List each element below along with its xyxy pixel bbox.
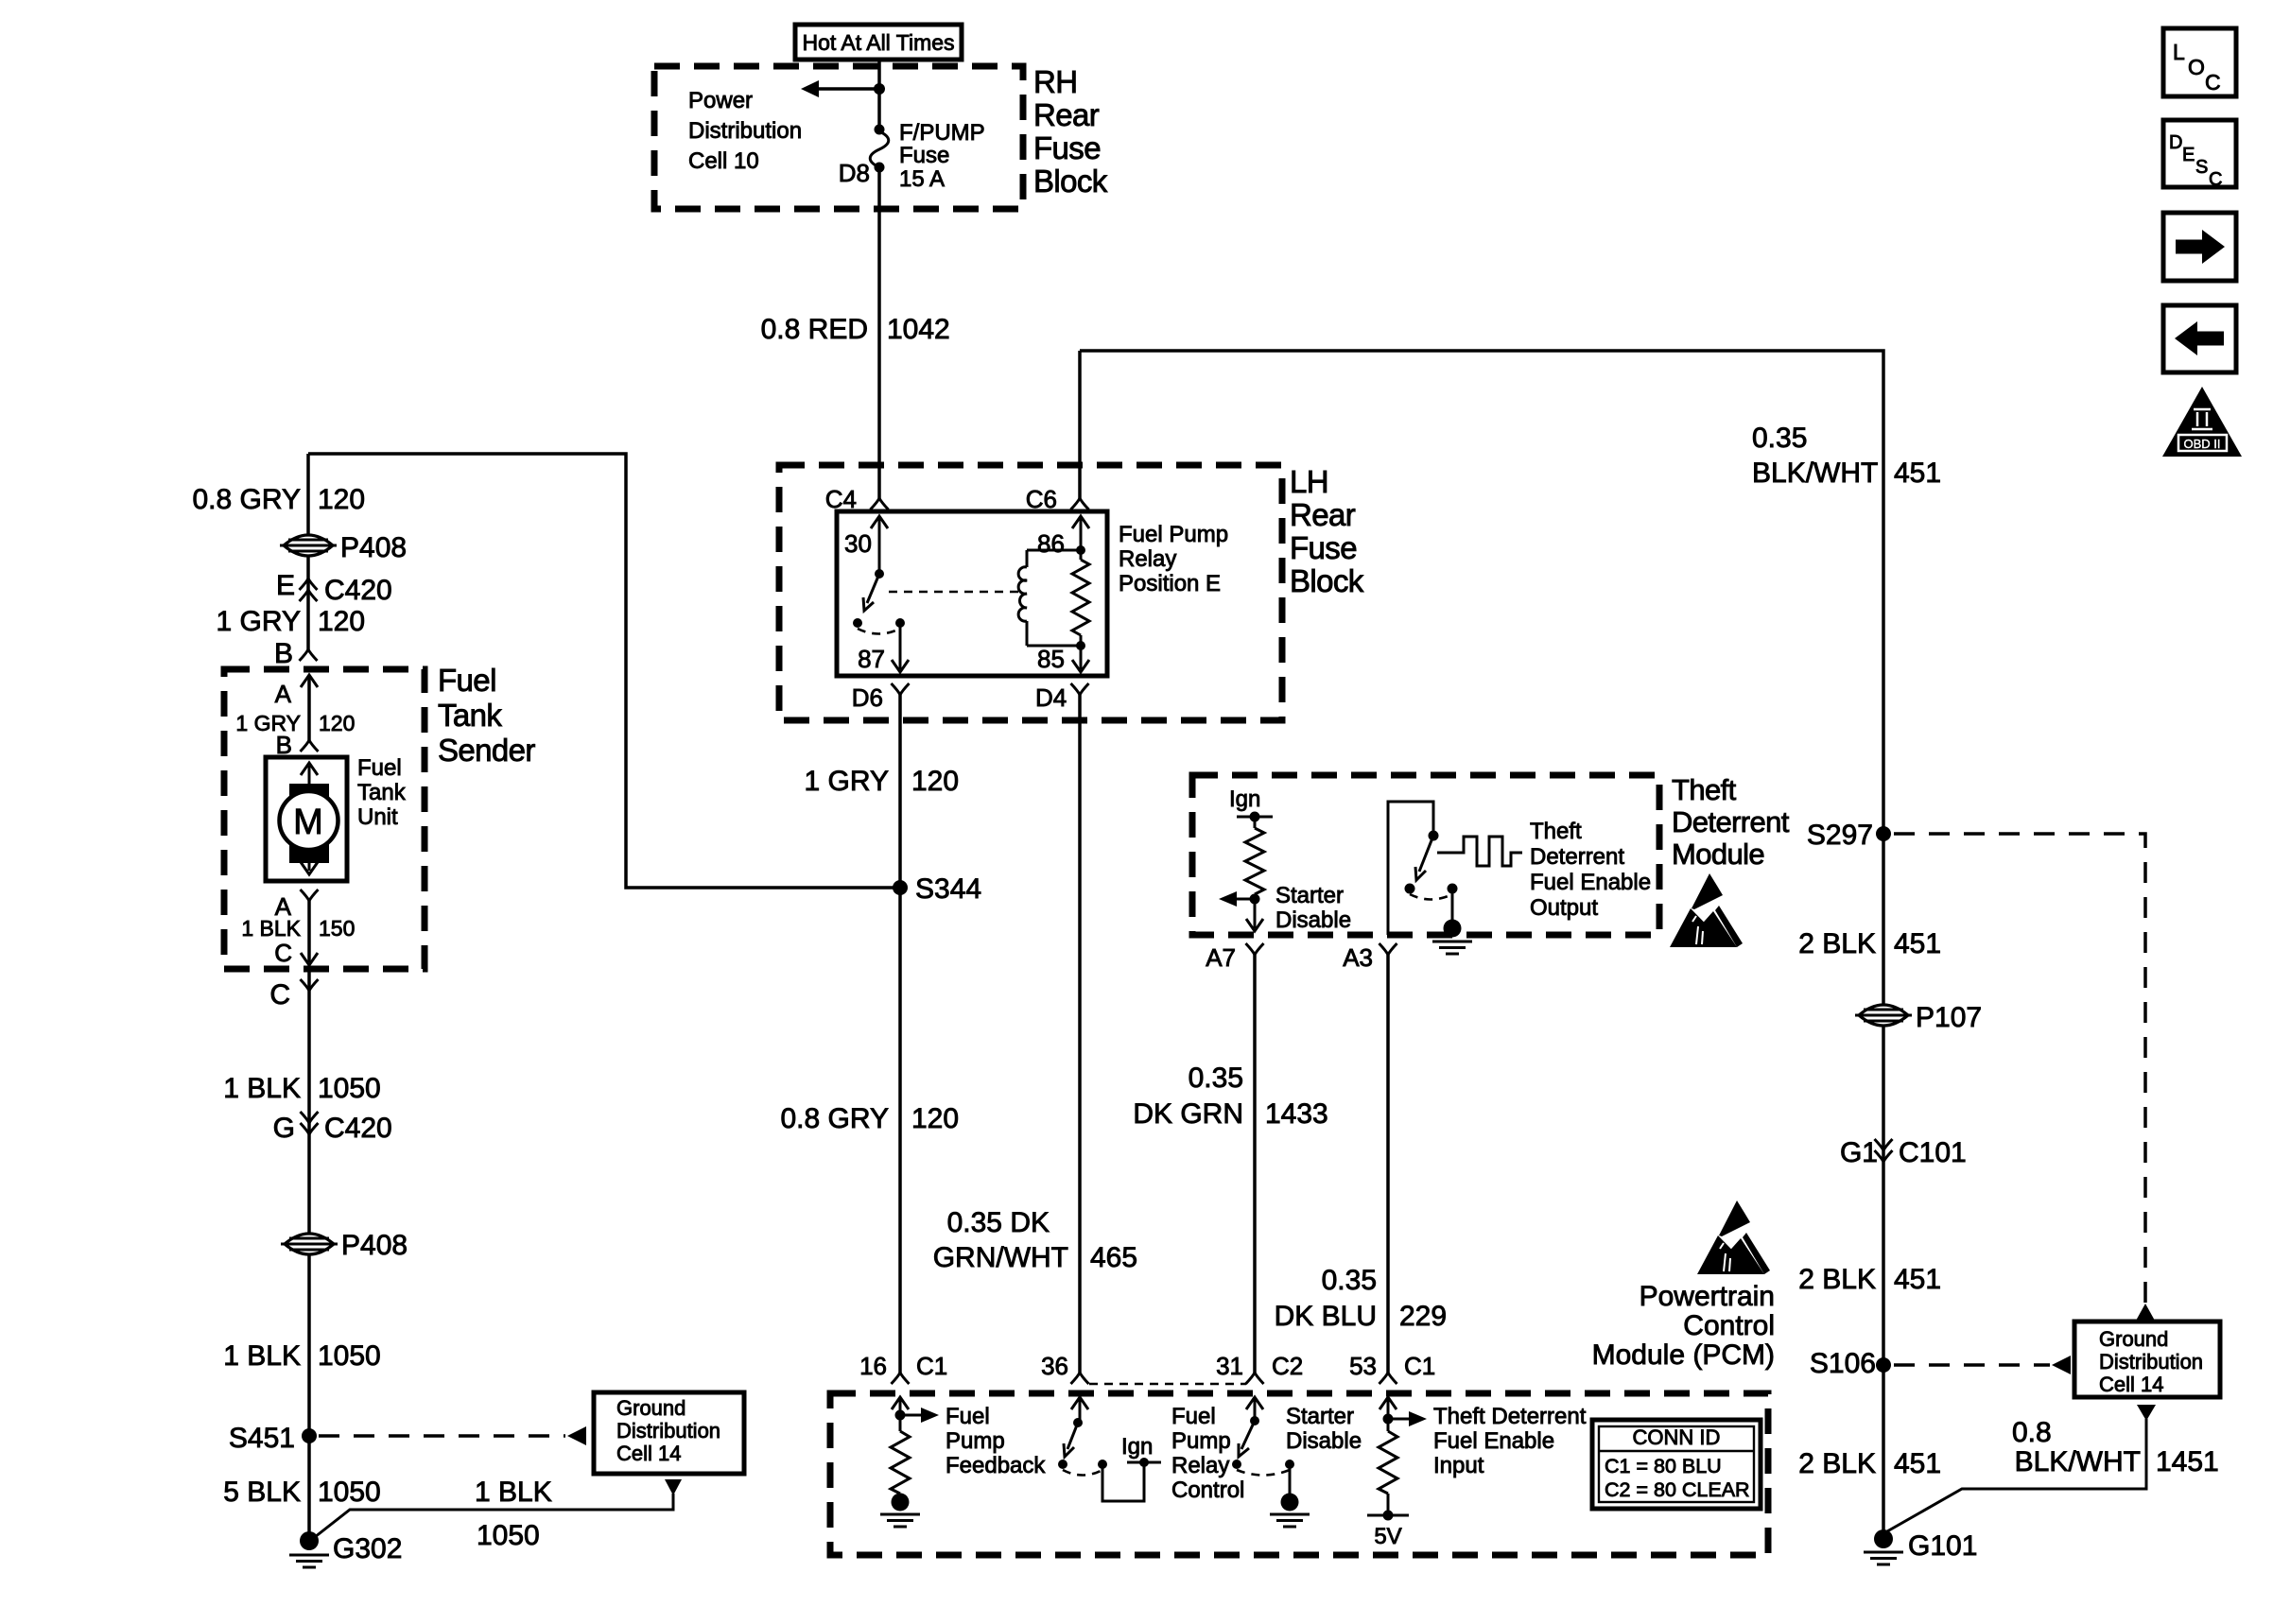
svg-text:Distribution: Distribution [616,1419,720,1443]
svg-text:87: 87 [858,645,885,673]
svg-text:L: L [2173,40,2185,64]
svg-text:Control: Control [1171,1477,1244,1503]
svg-text:Ign: Ign [1229,786,1260,812]
svg-text:M: M [293,803,323,842]
svg-text:1042: 1042 [887,314,950,345]
svg-text:Pump: Pump [946,1428,1005,1454]
svg-text:S297: S297 [1807,820,1873,851]
svg-text:Relay: Relay [1119,546,1176,572]
svg-text:16: 16 [859,1352,887,1380]
svg-text:Fuse: Fuse [1033,130,1101,165]
svg-text:Fuel: Fuel [1171,1404,1216,1429]
svg-text:Powertrain: Powertrain [1640,1281,1775,1312]
svg-text:D: D [2169,132,2182,153]
svg-text:2 BLK: 2 BLK [1798,928,1876,959]
svg-text:1050: 1050 [318,1340,381,1372]
svg-text:D8: D8 [839,159,870,187]
svg-text:Control: Control [1683,1310,1775,1341]
svg-text:1 BLK: 1 BLK [223,1073,301,1104]
svg-text:Disable: Disable [1275,907,1351,933]
svg-text:120: 120 [911,766,959,797]
svg-text:Feedback: Feedback [946,1453,1046,1478]
svg-text:Theft Deterrent: Theft Deterrent [1433,1404,1587,1429]
svg-text:0.8 GRY: 0.8 GRY [780,1103,889,1134]
svg-text:Ground: Ground [2099,1327,2168,1351]
svg-text:Cell 14: Cell 14 [2099,1373,2163,1396]
svg-text:O: O [2188,55,2205,79]
svg-text:D6: D6 [852,683,883,712]
svg-text:1 GRY: 1 GRY [805,766,890,797]
svg-text:85: 85 [1037,645,1065,673]
svg-text:Sender: Sender [438,733,535,768]
svg-text:Distribution: Distribution [688,118,802,144]
svg-text:5V: 5V [1374,1524,1401,1549]
svg-text:465: 465 [1090,1242,1137,1273]
svg-text:S344: S344 [915,873,981,905]
svg-text:Theft: Theft [1672,773,1737,806]
svg-text:0.35: 0.35 [1752,423,1807,454]
svg-text:P107: P107 [1916,1002,1982,1033]
svg-text:Theft: Theft [1530,819,1582,844]
svg-text:0.35 DK: 0.35 DK [947,1207,1050,1238]
svg-text:Fuse: Fuse [899,143,949,168]
svg-text:1050: 1050 [477,1520,540,1551]
svg-text:Rear: Rear [1033,97,1100,132]
svg-text:CONN ID: CONN ID [1633,1425,1721,1449]
svg-text:S106: S106 [1810,1348,1876,1379]
svg-text:1050: 1050 [318,1073,381,1104]
svg-text:Ign: Ign [1121,1434,1153,1460]
svg-text:BLK/WHT: BLK/WHT [1752,458,1878,489]
svg-text:G302: G302 [333,1533,402,1564]
svg-text:451: 451 [1894,1264,1941,1295]
svg-text:Deterrent: Deterrent [1530,844,1624,870]
svg-text:LH: LH [1290,464,1328,499]
svg-text:DK GRN: DK GRN [1133,1098,1243,1130]
svg-text:86: 86 [1037,529,1065,558]
svg-text:C1 = 80 BLU: C1 = 80 BLU [1605,1455,1722,1477]
svg-text:451: 451 [1894,458,1941,489]
svg-text:120: 120 [319,711,355,735]
svg-text:120: 120 [318,484,365,515]
svg-text:1451: 1451 [2156,1446,2219,1477]
svg-text:36: 36 [1041,1352,1068,1380]
svg-text:C420: C420 [324,575,392,606]
svg-text:Disable: Disable [1286,1428,1362,1454]
svg-text:Starter: Starter [1286,1404,1354,1429]
svg-text:Relay: Relay [1171,1453,1229,1478]
svg-text:120: 120 [318,606,365,637]
svg-text:Fuel: Fuel [438,663,496,698]
svg-text:Power: Power [688,88,753,113]
svg-text:C: C [269,979,290,1011]
svg-text:Deterrent: Deterrent [1672,805,1790,838]
svg-text:0.35: 0.35 [1189,1063,1243,1094]
svg-text:OBD II: OBD II [2183,437,2220,451]
svg-text:A7: A7 [1206,943,1236,972]
svg-text:Starter: Starter [1275,883,1344,908]
svg-text:C2: C2 [1272,1352,1303,1380]
svg-text:P408: P408 [340,532,407,563]
svg-text:30: 30 [844,529,872,558]
svg-text:451: 451 [1894,928,1941,959]
svg-text:Hot At All Times: Hot At All Times [802,30,954,55]
svg-text:Fuel Pump: Fuel Pump [1119,522,1228,547]
svg-text:0.8: 0.8 [2012,1417,2052,1448]
svg-text:C: C [2205,70,2221,95]
svg-text:C4: C4 [825,485,857,513]
svg-text:D4: D4 [1035,683,1067,712]
svg-text:229: 229 [1399,1301,1447,1332]
svg-text:Fuel: Fuel [357,755,402,781]
svg-text:31: 31 [1216,1352,1243,1380]
svg-text:BLK/WHT: BLK/WHT [2015,1446,2141,1477]
svg-text:G: G [273,1113,295,1144]
svg-text:C: C [274,939,292,967]
svg-text:Fuel Enable: Fuel Enable [1530,870,1651,895]
svg-text:Distribution: Distribution [2099,1350,2203,1373]
svg-text:GRN/WHT: GRN/WHT [933,1242,1068,1273]
svg-text:C101: C101 [1899,1137,1967,1168]
svg-text:P408: P408 [341,1230,408,1261]
svg-text:Block: Block [1033,164,1108,199]
svg-text:1 BLK: 1 BLK [223,1340,301,1372]
svg-text:Fuel Enable: Fuel Enable [1433,1428,1554,1454]
svg-text:A: A [275,680,292,708]
svg-text:C420: C420 [324,1113,392,1144]
svg-text:0.8 RED: 0.8 RED [761,314,868,345]
svg-text:G101: G101 [1908,1530,1977,1562]
svg-text:1 BLK: 1 BLK [475,1477,552,1508]
svg-text:Input: Input [1433,1453,1484,1478]
svg-text:Pump: Pump [1171,1428,1231,1454]
svg-text:Ground: Ground [616,1396,685,1420]
svg-text:0.8 GRY: 0.8 GRY [192,484,301,515]
svg-text:1 BLK: 1 BLK [241,916,301,941]
svg-text:C6: C6 [1026,485,1057,513]
svg-text:DK BLU: DK BLU [1275,1301,1377,1332]
svg-text:15 A: 15 A [899,166,945,192]
svg-text:G1: G1 [1840,1137,1878,1168]
svg-text:Fuse: Fuse [1290,530,1357,565]
svg-text:Position E: Position E [1119,571,1221,596]
svg-text:1050: 1050 [318,1477,381,1508]
svg-text:5 BLK: 5 BLK [223,1477,301,1508]
svg-text:E: E [2182,145,2195,165]
svg-text:Tank: Tank [438,698,502,733]
svg-text:F/PUMP: F/PUMP [899,120,985,146]
svg-text:A3: A3 [1343,943,1373,972]
svg-text:1 GRY: 1 GRY [217,606,302,637]
svg-text:Module (PCM): Module (PCM) [1592,1339,1775,1371]
svg-text:2 BLK: 2 BLK [1798,1264,1876,1295]
svg-text:451: 451 [1894,1448,1941,1479]
svg-text:B: B [274,638,293,669]
svg-text:Block: Block [1290,563,1364,598]
svg-text:Rear: Rear [1290,497,1356,532]
svg-text:53: 53 [1349,1352,1377,1380]
svg-text:RH: RH [1033,64,1077,99]
svg-text:Module: Module [1672,838,1764,871]
svg-text:Cell 14: Cell 14 [616,1442,681,1465]
svg-text:S451: S451 [229,1423,295,1454]
svg-text:150: 150 [319,916,355,941]
svg-text:0.35: 0.35 [1322,1265,1377,1296]
svg-text:E: E [276,570,295,601]
svg-text:1433: 1433 [1265,1098,1328,1130]
svg-text:120: 120 [911,1103,959,1134]
svg-text:S: S [2195,157,2208,178]
svg-text:Fuel: Fuel [946,1404,990,1429]
svg-text:Unit: Unit [357,804,398,830]
svg-text:Output: Output [1530,895,1598,921]
svg-text:Cell 10: Cell 10 [688,148,759,174]
svg-text:C1: C1 [1404,1352,1435,1380]
svg-text:2 BLK: 2 BLK [1798,1448,1876,1479]
svg-text:C2 = 80 CLEAR: C2 = 80 CLEAR [1605,1478,1750,1501]
svg-text:C: C [2209,169,2222,190]
svg-text:Tank: Tank [357,780,407,805]
svg-text:C1: C1 [916,1352,947,1380]
